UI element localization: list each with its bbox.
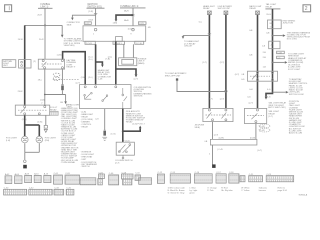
diode component <box>61 85 64 91</box>
connector plug shutoff <box>224 11 228 15</box>
connector C-23 wide <box>266 174 294 182</box>
wire bulb grounds <box>25 143 40 160</box>
branch arrow ignition <box>96 62 104 67</box>
svg-text:2: 2 <box>305 6 308 12</box>
wire ground bus horizontal <box>45 94 66 96</box>
svg-text:(13-B): (13-B) <box>128 28 134 30</box>
branch arrow fog switch <box>122 124 146 133</box>
branch arrow body ground <box>64 95 67 105</box>
fusible link F1 label <box>38 4 53 9</box>
junction box inline <box>269 41 280 49</box>
svg-text:(RH): (RH) <box>45 140 50 142</box>
text fusible link note <box>138 58 147 64</box>
wire relay elbow riser <box>63 52 86 85</box>
connector C-16 <box>194 172 212 183</box>
pin circle sw3 <box>115 86 117 88</box>
text headlight relay note <box>98 69 112 80</box>
connector C-01 <box>54 173 63 184</box>
svg-text:29-W: 29-W <box>18 91 23 93</box>
svg-text:(2-G) FOG LT: (2-G) FOG LT <box>132 124 145 126</box>
svg-text:(2-W): (2-W) <box>37 121 42 123</box>
component daytime light unit box <box>2 60 16 68</box>
wire relay ground <box>45 115 47 125</box>
wire fusible link 2 feed <box>132 8 134 26</box>
svg-text:(7-G): (7-G) <box>111 134 116 136</box>
mini connector pictogram <box>50 111 59 115</box>
connector A-13 <box>44 173 51 183</box>
svg-text:NOV. 1991: NOV. 1991 <box>287 39 298 41</box>
connector C-13 <box>170 172 190 183</box>
connector C-06 <box>109 173 119 185</box>
text eng wiring <box>283 20 296 24</box>
svg-text:20-G: 20-G <box>266 14 271 16</box>
branch arrow dome <box>272 61 288 64</box>
bulleted list accessories <box>125 110 146 124</box>
svg-text:| C-45: | C-45 <box>217 149 223 151</box>
wire ignition continued <box>95 44 97 84</box>
text right list lower <box>288 101 305 135</box>
svg-text:(2-L): (2-L) <box>88 59 93 61</box>
wire ignition feed <box>95 8 97 26</box>
ground chassis <box>102 137 107 140</box>
svg-text:1 C-10: 1 C-10 <box>136 43 143 45</box>
svg-text:0-G: 0-G <box>267 96 271 98</box>
connector A-02 <box>5 173 12 184</box>
svg-text:(7-B): (7-B) <box>105 58 110 60</box>
connector C-35 <box>66 188 74 196</box>
svg-text:RELAY ②: RELAY ② <box>66 66 75 69</box>
legend group5 <box>241 187 250 192</box>
connector C-17 <box>216 172 226 183</box>
light shutoff label <box>218 5 233 10</box>
fuse strip box <box>210 139 257 145</box>
node shutoff join <box>225 90 227 92</box>
connector C-10 <box>135 173 152 185</box>
text fog light LH <box>6 138 18 142</box>
svg-text:RELAY: RELAY <box>203 7 210 10</box>
svg-text:SHUT-OFF UNIT: SHUT-OFF UNIT <box>218 8 231 10</box>
ground symbol relay <box>44 125 47 132</box>
wire tail jog arrow <box>265 92 273 99</box>
dimmer switch box <box>116 142 134 159</box>
pin circle sw1 <box>84 86 86 88</box>
column switch big box <box>80 85 132 109</box>
wire notch feed <box>115 41 117 84</box>
svg-text:· SWITCH: · SWITCH <box>80 166 90 168</box>
svg-text:(2-?): (2-?) <box>220 62 225 64</box>
svg-text:page 8-14: page 8-14 <box>278 190 288 192</box>
svg-text:0-D: 0-D <box>241 79 245 81</box>
node ground bus <box>44 94 46 96</box>
svg-text:0-D: 0-D <box>247 96 251 98</box>
wire box2 to fusebox <box>255 124 257 140</box>
branch arrow notch <box>116 69 138 81</box>
legend group4 <box>221 188 233 192</box>
svg-text:(1-B): (1-B) <box>40 100 45 102</box>
fusible link block <box>119 58 137 66</box>
wire right branch to arrow <box>61 25 64 37</box>
connector plug backup <box>256 11 260 15</box>
svg-text:20-R: 20-R <box>37 15 42 17</box>
fog light bulb RH <box>36 136 43 143</box>
svg-text:· RELAY: · RELAY <box>80 125 88 128</box>
text daytime running light relay <box>66 59 76 69</box>
legend group7 <box>278 187 288 192</box>
svg-text:(2-?): (2-?) <box>268 116 273 118</box>
branch arrow illum <box>273 91 289 94</box>
legend group2 <box>189 188 197 195</box>
wire elbow to starter arrow <box>113 15 133 25</box>
pin circle sw2 <box>95 86 97 88</box>
svg-text:J-C: J-C <box>277 57 281 59</box>
note connector text <box>67 22 81 26</box>
svg-text:J/C: J/C <box>270 45 274 47</box>
pin circle ground <box>24 160 27 163</box>
wire bus horizontal <box>25 24 63 26</box>
svg-text:20-W: 20-W <box>18 39 23 41</box>
svg-text:G: Green Gr: Gray: G: Green Gr: Gray <box>168 191 186 194</box>
svg-text:SWITCH): SWITCH) <box>134 96 143 98</box>
text column switch note <box>134 87 152 98</box>
connector A-10 <box>34 173 41 183</box>
wire diode to ground bus <box>61 90 63 94</box>
svg-text:JUNCTION: JUNCTION <box>283 23 294 25</box>
wire to fuse block left <box>123 44 125 58</box>
svg-text:· UNIT: · UNIT <box>80 159 87 161</box>
connector tag C-08 <box>113 41 125 45</box>
fog relay box <box>15 105 49 115</box>
text junction note <box>60 102 67 106</box>
svg-text:(2-?): (2-?) <box>208 99 213 101</box>
svg-text:RELAY: RELAY <box>266 5 273 8</box>
J/B notch connector <box>116 37 123 42</box>
ignition switch IG1 label <box>87 4 105 8</box>
legend group6 <box>259 187 267 192</box>
tail light relay label <box>265 3 280 9</box>
relay RL1 headlight relay <box>38 59 64 69</box>
connector tag C-10 <box>135 41 144 45</box>
svg-text:(2-?): (2-?) <box>76 82 81 84</box>
text wiring harness note <box>287 31 311 40</box>
svg-text:(1-R): (1-R) <box>57 55 62 57</box>
wire sw output right <box>122 109 124 142</box>
wire shutoff branch <box>177 79 226 91</box>
svg-text:Y: Yellow: Y: Yellow <box>241 190 250 192</box>
pin circle F2 input <box>130 28 134 35</box>
svg-text:0A-B: 0A-B <box>124 19 129 22</box>
text right list upper <box>288 53 307 70</box>
SMJ box <box>268 20 282 29</box>
text fog light RH <box>45 138 57 142</box>
wire to fuse block right <box>132 44 134 58</box>
connector tick HL wire <box>208 34 211 35</box>
svg-text:(2-?): (2-?) <box>115 163 120 165</box>
svg-text:FOOT LIGHT: FOOT LIGHT <box>288 69 301 71</box>
component list column <box>60 107 79 164</box>
svg-text:(0-?): (0-?) <box>257 150 262 152</box>
svg-text:(2-?): (2-?) <box>214 134 219 136</box>
svg-text:(1M): (1M) <box>113 23 118 25</box>
connector C-05 <box>98 172 105 185</box>
svg-text:90W60-A: 90W60-A <box>299 194 308 197</box>
node main junction <box>44 24 46 26</box>
svg-text:SIDE): SIDE) <box>195 127 201 129</box>
connector tag J-C <box>277 56 285 59</box>
text to shutoff unit <box>165 72 187 77</box>
svg-text:(2-?): (2-?) <box>202 62 207 64</box>
svg-text:0-C: 0-C <box>199 21 203 23</box>
wire fog feed left <box>24 115 26 136</box>
svg-text:SMJ: SMJ <box>269 23 273 25</box>
svg-text:0-H: 0-H <box>249 89 253 91</box>
connector C-30 <box>4 188 27 196</box>
svg-text:SWITCH ILLUM: SWITCH ILLUM <box>289 94 304 96</box>
wire left feed <box>24 25 26 105</box>
page tag 1 <box>5 5 12 12</box>
svg-text:RELAY: RELAY <box>249 7 256 10</box>
connector tag C-22 <box>84 22 91 25</box>
legend group3 <box>207 187 217 192</box>
fusible link F2 label <box>120 5 146 8</box>
connector tag C-23 <box>138 22 146 25</box>
svg-text:(2-?): (2-?) <box>249 103 254 105</box>
legend group1 <box>168 187 186 195</box>
svg-text:(2-B): (2-B) <box>81 77 86 79</box>
connector C-21 <box>249 174 263 182</box>
wire branch to headlight circuit <box>182 36 210 39</box>
connector C-33 <box>54 188 64 196</box>
wire ignition elbow branch <box>71 15 96 20</box>
headlight relay label <box>203 5 215 10</box>
wire fusebox to ground <box>212 145 214 165</box>
svg-text:· AUDIO ILLUM: · AUDIO ILLUM <box>288 132 303 135</box>
dashed mechanical link <box>53 78 80 80</box>
svg-text:harness: harness <box>259 189 266 192</box>
wire tail relay feed <box>272 9 274 92</box>
svg-text:(LH): (LH) <box>6 140 10 142</box>
svg-text:20-R: 20-R <box>39 39 44 41</box>
label ovals dashed <box>259 124 270 132</box>
connector C-19 <box>240 176 245 182</box>
svg-text:(MAIN): (MAIN) <box>138 62 145 65</box>
connector C-04 <box>80 178 96 185</box>
wire fusible link feed <box>44 8 46 59</box>
text tail light relay note <box>268 102 286 109</box>
connector A-04 <box>15 173 22 184</box>
connector tag C-05 <box>85 41 95 45</box>
connector tick on ignition wire <box>94 13 97 14</box>
svg-text:green: green <box>189 191 194 194</box>
wire box1 to fusebox <box>212 122 214 140</box>
svg-text:(1-W): (1-W) <box>260 126 265 128</box>
svg-text:VEHICLES): VEHICLES) <box>64 45 75 47</box>
backup light label <box>249 5 262 10</box>
ground terminal block right <box>212 164 216 168</box>
terminal dot shutoff <box>176 78 178 80</box>
svg-text:1S-B: 1S-B <box>88 20 93 22</box>
text right list mid <box>289 78 309 96</box>
note to theft-alarm text <box>64 37 84 47</box>
svg-text:P: Pink: P: Pink <box>207 190 214 192</box>
svg-text:(1-W): (1-W) <box>260 130 265 132</box>
branch arrow taillight right <box>272 34 286 37</box>
label 2-B ovals <box>53 73 60 80</box>
wire backup feed <box>257 15 259 109</box>
svg-text:(2-?): (2-?) <box>134 79 139 81</box>
connector tag C-68 <box>277 51 285 54</box>
tail relay box left <box>203 108 233 121</box>
junction block J/B box <box>83 26 151 42</box>
fog light bulb LH <box>22 136 29 143</box>
svg-text:· RELAY: · RELAY <box>125 121 133 124</box>
wire shutoff feed <box>225 15 227 109</box>
connector mark on F2 wire <box>132 14 135 16</box>
connector C-12 <box>157 172 164 183</box>
wire fog split bar <box>25 124 40 126</box>
text column switch label <box>115 160 133 164</box>
component noise capacitor <box>103 130 106 135</box>
svg-text:4-G: 4-G <box>95 118 99 120</box>
svg-text:(2): (2) <box>33 61 36 63</box>
ground terminal block <box>23 165 27 169</box>
svg-text:(0-?): (0-?) <box>235 74 240 76</box>
connector C-03 <box>65 173 80 184</box>
text fog relay symbols <box>50 107 58 111</box>
connector C-32 <box>29 188 52 196</box>
connector C-18 <box>229 172 239 183</box>
svg-text:RELAY: RELAY <box>50 108 57 111</box>
text tail relay right note <box>268 110 279 118</box>
svg-text:(2-L): (2-L) <box>88 77 93 79</box>
text to headlight note <box>184 40 200 47</box>
svg-text:AUTO SHUT-OFF): AUTO SHUT-OFF) <box>268 106 285 109</box>
svg-text:SHUT-OFF UNIT: SHUT-OFF UNIT <box>165 75 181 77</box>
switch symbol dimmer <box>84 92 92 99</box>
relay box R4 <box>248 71 278 81</box>
svg-text:CIRCUIT: CIRCUIT <box>184 46 193 48</box>
svg-text:(2-?): (2-?) <box>220 99 225 101</box>
page tag 2 <box>303 5 311 12</box>
svg-text:0-G: 0-G <box>267 89 271 91</box>
wire relay left output <box>44 69 46 105</box>
svg-text:0A-R: 0A-R <box>124 9 129 12</box>
wire sw ground <box>104 109 106 131</box>
text J/B fuse note <box>195 125 205 129</box>
text list left lower <box>80 111 94 128</box>
switch element right <box>122 88 127 109</box>
pin circle ignition input <box>93 28 97 35</box>
svg-text:· TURN-SIGNAL: · TURN-SIGNAL <box>60 161 76 164</box>
svg-text:SIDE: SIDE <box>67 24 72 26</box>
svg-text:2 C-05: 2 C-05 <box>86 43 93 45</box>
connector A-09 <box>25 173 32 183</box>
wire headlight relay feed <box>208 15 210 109</box>
wire fog feed right <box>38 125 40 136</box>
svg-text:UNIT: UNIT <box>3 65 9 67</box>
svg-text:(2-R): (2-R) <box>88 11 93 13</box>
connector plug HL <box>208 11 212 15</box>
svg-text:Sb: Sky blue: Sb: Sky blue <box>221 190 233 192</box>
tail relay box right <box>244 108 266 123</box>
switch symbol passing <box>102 95 108 102</box>
connector C-08 <box>122 172 134 185</box>
connector block on unit <box>19 60 31 68</box>
text list tail left <box>80 151 97 168</box>
wire relay right output <box>61 69 63 85</box>
text body ground note <box>67 103 80 108</box>
